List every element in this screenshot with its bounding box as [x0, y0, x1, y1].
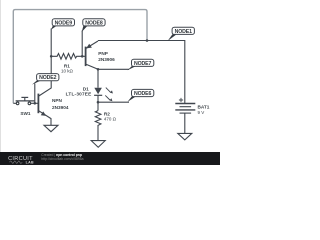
svg-text:470 Ω: 470 Ω — [104, 116, 117, 121]
svg-text:NODE2: NODE2 — [39, 75, 57, 81]
svg-text:10 kΩ: 10 kΩ — [61, 69, 74, 74]
svg-text:NODE8: NODE8 — [85, 20, 103, 26]
svg-text:NODE6: NODE6 — [134, 91, 152, 97]
svg-text:NODE7: NODE7 — [134, 61, 152, 67]
svg-text:SW1: SW1 — [20, 111, 31, 116]
svg-text:2N3904: 2N3904 — [52, 105, 69, 110]
svg-text:NODE9: NODE9 — [55, 20, 73, 26]
svg-text:http://circuitlab.com/c/5898a: http://circuitlab.com/c/5898a — [41, 157, 83, 161]
svg-text:NODE1: NODE1 — [175, 29, 193, 35]
svg-text:PNP: PNP — [98, 51, 108, 56]
svg-text:NPN: NPN — [52, 98, 63, 103]
svg-text:LTL-307EE: LTL-307EE — [66, 91, 92, 96]
svg-text:2N3906: 2N3906 — [98, 57, 115, 62]
svg-text:LAB: LAB — [26, 161, 34, 165]
svg-text:9 V: 9 V — [198, 110, 205, 115]
